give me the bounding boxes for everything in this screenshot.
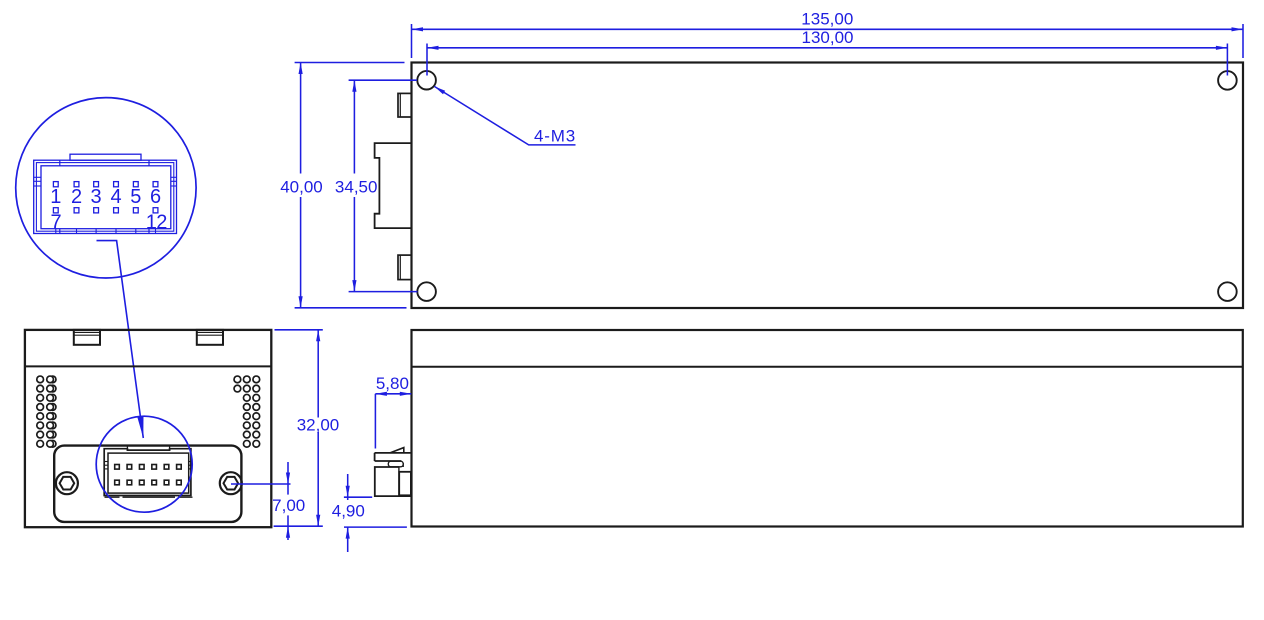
svg-text:130,00: 130,00: [802, 28, 854, 47]
svg-text:1: 1: [50, 186, 61, 208]
svg-text:34,50: 34,50: [335, 177, 378, 196]
svg-text:5: 5: [130, 186, 141, 208]
svg-text:4: 4: [110, 186, 121, 208]
svg-text:5,80: 5,80: [376, 374, 409, 393]
svg-text:32,00: 32,00: [297, 416, 340, 435]
svg-text:40,00: 40,00: [280, 177, 323, 196]
svg-text:6: 6: [150, 186, 161, 208]
svg-text:3: 3: [91, 186, 102, 208]
svg-text:7: 7: [50, 212, 61, 234]
svg-text:4,90: 4,90: [332, 502, 365, 521]
svg-text:135,00: 135,00: [801, 10, 853, 29]
svg-text:4-M3: 4-M3: [534, 126, 576, 145]
svg-text:7,00: 7,00: [272, 496, 305, 515]
svg-text:12: 12: [146, 212, 168, 234]
svg-text:2: 2: [71, 186, 82, 208]
